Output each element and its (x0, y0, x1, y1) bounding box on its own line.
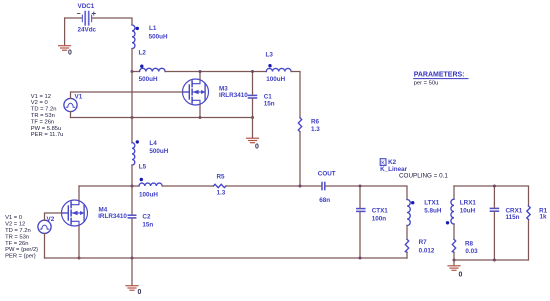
wire M4 source to bottom bus (78, 226, 80, 258)
svg-text:1k: 1k (540, 214, 548, 221)
svg-text:L5: L5 (139, 164, 147, 171)
wire V2 top stub to M4 gate (45, 213, 62, 220)
svg-text:24Vdc: 24Vdc (78, 27, 97, 34)
wire L4 bottom to mid bus (131, 165, 133, 186)
svg-text:TR = 53n: TR = 53n (5, 234, 29, 240)
wire ground stem center bottom (131, 258, 133, 286)
wire secondary bottom (454, 220, 529, 261)
wire M3 drain to top bus (199, 72, 201, 80)
svg-text:1.3: 1.3 (311, 126, 320, 133)
ground 0 (under C1) (247, 138, 259, 143)
wire M3 source to V1 bus (199, 105, 201, 118)
svg-text:VDC1: VDC1 (78, 3, 95, 10)
svg-text:15n: 15n (142, 221, 153, 228)
svg-text:per = 50u: per = 50u (414, 81, 439, 87)
svg-text:68n: 68n (319, 197, 330, 204)
voltage source V2 (38, 220, 51, 233)
svg-text:500uH: 500uH (149, 148, 168, 155)
svg-text:COUT: COUT (318, 170, 336, 177)
svg-text:PER = {per}: PER = {per} (5, 254, 36, 260)
resistor R1 (527, 206, 530, 220)
wire LRX1 top lead (453, 186, 455, 199)
mosfet M3 (183, 79, 209, 105)
wire secondary top from LRX1 corner to R1 (454, 186, 529, 206)
svg-text:PW = {per/2}: PW = {per/2} (5, 247, 38, 253)
wire ground stem under LRX1 (453, 260, 455, 266)
svg-text:0: 0 (138, 289, 142, 296)
inductor L1 (132, 25, 135, 49)
wire M4 drain to mid bus (78, 186, 80, 200)
wire battery left lead (65, 17, 82, 19)
svg-text:0: 0 (68, 50, 72, 57)
svg-text:15n: 15n (264, 101, 275, 108)
wire mid bus L5 to R5 (162, 185, 213, 187)
svg-text:TF = 26n: TF = 26n (5, 241, 28, 247)
svg-text:0: 0 (255, 144, 259, 151)
svg-text:R7: R7 (419, 239, 428, 246)
inductor L4 (132, 143, 135, 165)
wire CTX1 bottom lead (359, 212, 361, 258)
wire LTX1 to R7 (406, 226, 408, 240)
wire C2 bottom lead (131, 219, 133, 258)
wire top bus segment to L2 coil (132, 71, 140, 73)
svg-text:IRLR3410: IRLR3410 (98, 213, 127, 220)
svg-text:PW = 5.85u: PW = 5.85u (31, 126, 61, 132)
svg-text:V1 = 0: V1 = 0 (5, 215, 22, 221)
phase dot L2 (140, 65, 143, 68)
svg-text:V2 = 12: V2 = 12 (5, 222, 25, 228)
svg-text:100n: 100n (372, 215, 387, 222)
svg-text:L3: L3 (266, 52, 274, 59)
wire top bus L3 to corner and down to R6 (291, 72, 300, 118)
svg-text:5.8uH: 5.8uH (424, 208, 442, 215)
svg-text:LTX1: LTX1 (424, 200, 439, 207)
svg-text:C2: C2 (142, 213, 151, 220)
capacitor CTX1 (357, 209, 365, 212)
junction mid bus x132 (131, 185, 134, 188)
wire top bus L2 to L3 (165, 71, 266, 73)
junction mid bus CTX1 (359, 185, 362, 188)
wire V1 bus (71, 117, 253, 119)
capacitor C2 (128, 215, 135, 218)
capacitor COUT (322, 183, 325, 190)
svg-text:COUPLING = 0.1: COUPLING = 0.1 (399, 173, 448, 180)
V1 parameter text block (31, 94, 64, 138)
svg-text:0.03: 0.03 (465, 248, 478, 255)
svg-text:0.012: 0.012 (419, 247, 435, 254)
svg-text:1.3: 1.3 (217, 189, 226, 196)
svg-text:100uH: 100uH (266, 76, 285, 83)
svg-text:IRLR3410: IRLR3410 (219, 92, 248, 99)
inductor L3 (266, 68, 291, 71)
inductor LTX1 (407, 200, 410, 226)
svg-text:V2: V2 (47, 216, 55, 223)
inductor LRX1 (451, 199, 454, 224)
ground 0 (secondary) (448, 266, 460, 271)
svg-text:100uH: 100uH (139, 191, 158, 198)
svg-text:TR = 53n: TR = 53n (31, 113, 55, 119)
wire battery right lead to corner and down to L1 (92, 18, 132, 25)
phase dot L1 (136, 27, 139, 30)
capacitor C1 (249, 95, 257, 98)
svg-text:V2 = 0: V2 = 0 (31, 100, 48, 106)
wire CRX1 bottom lead (493, 212, 495, 260)
wire R7 bottom to bottom bus (406, 252, 408, 258)
PARAMETERS underline (414, 78, 468, 80)
voltage source V1 (64, 98, 77, 111)
junction C1 top (251, 70, 254, 73)
inductor L2 (140, 68, 166, 71)
svg-text:R8: R8 (465, 240, 474, 247)
junction top bus x132 (131, 70, 134, 73)
phase dot LRX1 (446, 221, 449, 224)
phase dot L4 (136, 140, 139, 143)
junction CRX1 bottom (493, 259, 496, 262)
wire C1 top lead (252, 72, 254, 95)
V2 parameter text block (5, 215, 38, 259)
wire ground stem under battery (64, 18, 66, 46)
svg-text:500uH: 500uH (139, 76, 158, 83)
wire x132 column top-bus to L4 (131, 72, 133, 143)
svg-text:10uH: 10uH (460, 208, 476, 215)
inductor L5 (139, 183, 162, 186)
junction CTX1 bottom (359, 257, 362, 260)
svg-text:L2: L2 (139, 50, 147, 57)
resistor R6 (298, 118, 301, 132)
svg-text:PER = 11.7u: PER = 11.7u (31, 132, 64, 138)
wire V1 bottom stub (70, 112, 72, 118)
svg-text:C1: C1 (264, 93, 273, 100)
ground 0 (battery) (59, 46, 71, 51)
svg-text:500uH: 500uH (149, 33, 168, 40)
junction mid bus R6 (299, 185, 302, 188)
svg-text:V1: V1 (75, 94, 83, 101)
svg-text:CTX1: CTX1 (372, 207, 389, 214)
phase dot LTX1 (411, 201, 414, 204)
wire CRX1 top lead (493, 186, 495, 208)
wire C1 bottom lead (252, 99, 254, 118)
wire V2 bottom stub (44, 233, 46, 258)
junction M4 source (78, 257, 81, 260)
ground 0 (bottom center) (126, 286, 138, 291)
phase dot L3 (268, 64, 271, 67)
capacitor CRX1 (490, 208, 498, 211)
junction bottom bus x132 (131, 257, 134, 260)
svg-text:L1: L1 (149, 25, 157, 32)
wire ground stem under C1 (252, 118, 254, 139)
svg-text:TF = 26n: TF = 26n (31, 119, 54, 125)
svg-text:TD = 7.2n: TD = 7.2n (31, 107, 57, 113)
svg-text:TD = 7.2n: TD = 7.2n (5, 228, 31, 234)
junction secondary bottom gnd (453, 259, 456, 262)
wire LRX1 to R8 (453, 224, 455, 239)
wire R8 bottom to secondary bottom (453, 252, 455, 260)
svg-text:115n: 115n (506, 214, 520, 221)
junction CRX1 top (493, 185, 496, 188)
wire C2 top lead (131, 186, 133, 215)
junction M3 source (199, 116, 202, 119)
junction M3 drain (199, 70, 202, 73)
coupling K2 symbol (380, 159, 386, 167)
voltage source VDC1 (77, 12, 95, 25)
svg-text:R5: R5 (217, 173, 226, 180)
svg-text:PARAMETERS:: PARAMETERS: (414, 72, 465, 79)
resistor R7 (405, 239, 408, 252)
wire L1 bottom to top bus (131, 49, 133, 72)
wire R6 bottom to mid bus (299, 132, 301, 186)
svg-text:L4: L4 (149, 140, 157, 147)
junction V1 bus x132 (131, 116, 134, 119)
wire bottom bus (45, 257, 408, 259)
wire V1 top stub to gate bus (71, 92, 183, 98)
resistor R5 (214, 184, 227, 187)
svg-text:V1 = 12: V1 = 12 (31, 94, 51, 100)
wire mid bus R5 to COUT (226, 185, 322, 187)
svg-text:K2: K2 (388, 159, 397, 166)
wire mid bus COUT to LTX1 corner (325, 186, 407, 200)
junction C1 bottom (251, 116, 254, 119)
wire mid bus from M4 drain corner (79, 185, 139, 187)
resistor R8 (452, 239, 455, 252)
svg-text:R6: R6 (311, 118, 320, 125)
mosfet M4 (62, 200, 88, 226)
wire CTX1 top lead (359, 186, 361, 208)
phase dot L5 (140, 178, 143, 181)
svg-text:0: 0 (459, 272, 463, 279)
svg-text:LRX1: LRX1 (460, 200, 477, 207)
